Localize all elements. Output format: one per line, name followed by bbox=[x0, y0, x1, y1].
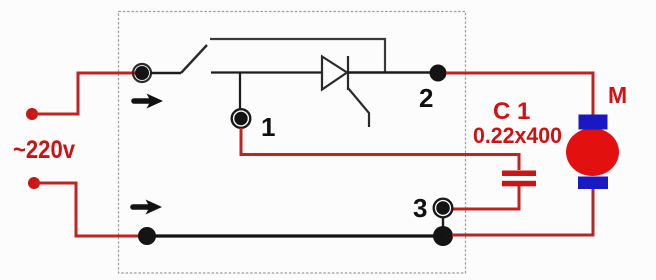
wire upper mains input (red) bbox=[32, 73, 140, 114]
wire top bypass (blade tip to triac cathode side) bbox=[210, 39, 385, 72]
wire bottom junction to motor (red) bbox=[452, 187, 593, 235]
switch S1 blade (open) bbox=[181, 45, 207, 73]
wire main horizontal (switch contact to triac anode) bbox=[211, 71, 322, 73]
label 3 bbox=[413, 193, 427, 223]
wire switch common bbox=[150, 72, 181, 74]
label 2 bbox=[419, 83, 433, 113]
bottom neutral wire (black) bbox=[147, 234, 443, 237]
bottom left terminal dot bbox=[138, 227, 156, 245]
wire capacitor to node 3 (red) bbox=[452, 186, 519, 209]
arrow top (insertion direction) bbox=[134, 94, 163, 109]
svg-text:M: M bbox=[608, 82, 627, 108]
node 3 terminal bbox=[434, 199, 453, 218]
node: switch input terminal bbox=[133, 64, 151, 82]
svg-text:1: 1 bbox=[261, 112, 275, 142]
thyristor VS1 triangle bbox=[322, 57, 347, 90]
svg-text:2: 2 bbox=[419, 83, 433, 113]
label 1 bbox=[261, 112, 275, 142]
wire node3 to bottom junction bbox=[442, 217, 444, 228]
wire drop to node 1 bbox=[239, 73, 241, 110]
label M bbox=[608, 82, 627, 108]
svg-text:~220v: ~220v bbox=[13, 136, 75, 164]
node 1 terminal bbox=[232, 109, 251, 128]
thyristor gate lead bbox=[348, 88, 369, 127]
svg-text:3: 3 bbox=[413, 193, 427, 223]
bottom junction dot bbox=[433, 226, 453, 246]
capacitor C1 plates bbox=[502, 171, 536, 187]
label C 1 bbox=[493, 98, 530, 125]
arrow bottom (insertion direction) bbox=[133, 200, 162, 215]
wire lower mains input (red) bbox=[34, 183, 145, 236]
wire node 1 to capacitor (red) bbox=[241, 128, 519, 170]
motor M body bbox=[566, 115, 619, 190]
node: lower mains terminal dot bbox=[28, 177, 40, 189]
wire node 2 to motor (red) bbox=[446, 73, 593, 117]
wire triac output to node 2 bbox=[348, 71, 431, 73]
node: upper mains terminal dot bbox=[26, 108, 38, 120]
node 2 terminal bbox=[430, 65, 447, 82]
label 0.22x400 bbox=[473, 123, 562, 148]
label ~220v bbox=[13, 136, 75, 164]
dashed enclosure border bbox=[119, 12, 466, 274]
thyristor cathode bar bbox=[347, 56, 349, 90]
svg-text:C 1: C 1 bbox=[493, 98, 530, 125]
svg-text:0.22x400: 0.22x400 bbox=[473, 123, 562, 148]
